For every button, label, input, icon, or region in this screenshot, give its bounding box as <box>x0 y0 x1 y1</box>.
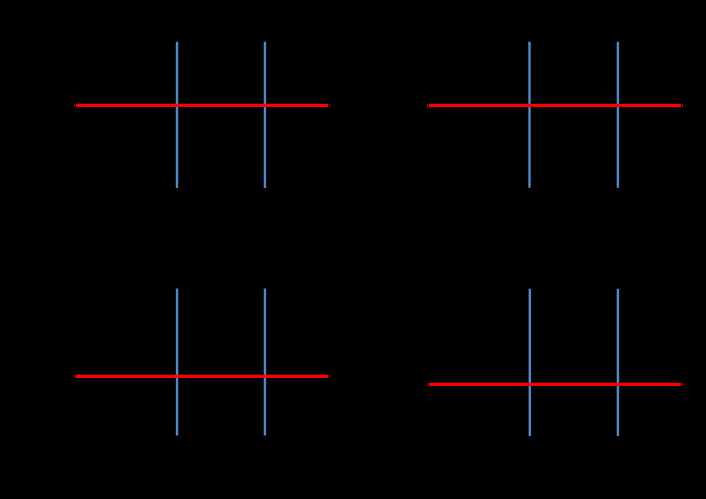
blue vertical line 2 (top-left subplot) <box>264 42 266 188</box>
red dash cap left (bottom-left subplot) <box>74 375 75 377</box>
red dash cap right (top-right subplot) <box>682 104 683 106</box>
blue vertical line 1 (bottom-left subplot) <box>176 289 178 436</box>
blue vertical line 1 (top-right subplot) <box>528 42 530 188</box>
blue vertical line 1 (bottom-right subplot) <box>529 289 531 436</box>
red dash cap left (bottom-right subplot) <box>427 383 428 385</box>
red dash cap right (bottom-left subplot) <box>329 375 330 377</box>
blue vertical line 2 (bottom-left subplot) <box>264 289 266 436</box>
red dash cap left (top-right subplot) <box>427 104 428 106</box>
blue vertical line 2 (top-right subplot) <box>617 42 619 188</box>
blue vertical line 1 (top-left subplot) <box>176 42 178 188</box>
red dash cap left (top-left subplot) <box>74 104 75 106</box>
red horizontal line (bottom-left subplot) <box>76 375 328 378</box>
red horizontal line (top-right subplot) <box>429 104 681 107</box>
red dash cap right (top-left subplot) <box>329 104 330 106</box>
red horizontal line (top-left subplot) <box>76 104 328 107</box>
blue vertical line 2 (bottom-right subplot) <box>617 289 619 436</box>
red horizontal line (bottom-right subplot) <box>429 383 681 386</box>
red dash cap right (bottom-right subplot) <box>682 383 683 385</box>
